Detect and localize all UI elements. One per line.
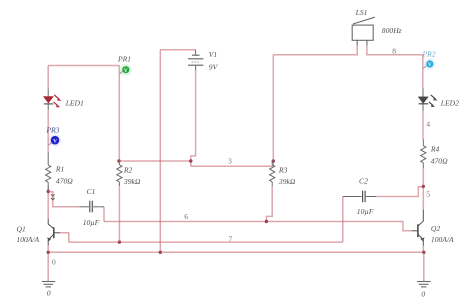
- LED1: [44, 89, 62, 111]
- svg-text:0: 0: [47, 289, 51, 298]
- resistor R2: [117, 161, 122, 186]
- svg-text:10µF: 10µF: [83, 218, 100, 227]
- wire C1 down to wire6: [103, 207, 105, 222]
- svg-text:PR3: PR3: [45, 126, 59, 135]
- svg-text:4: 4: [426, 120, 430, 129]
- svg-text:100A/A: 100A/A: [16, 235, 39, 244]
- svg-text:R2: R2: [123, 166, 133, 175]
- wire R4 to Q2 collector: [422, 168, 424, 210]
- wire net3 lower horizontal: [191, 161, 273, 166]
- svg-text:Q1: Q1: [17, 224, 26, 233]
- wire LED2 to R4: [422, 111, 424, 140]
- wire C2 left to net7: [342, 197, 344, 243]
- wire net3 horizontal left: [119, 160, 191, 162]
- wire right branch vertical top: [422, 55, 424, 89]
- svg-text:LED1: LED1: [65, 98, 84, 107]
- speaker LS1: [352, 17, 375, 45]
- LED2: [418, 89, 437, 111]
- wire left ground stem: [47, 252, 49, 281]
- wire battery bottom jog to net3: [191, 71, 196, 167]
- resistor R1: [46, 152, 51, 192]
- wire net 7 horizontal: [69, 241, 343, 243]
- junction node3 left (R2 top): [117, 159, 120, 162]
- svg-text:6: 6: [184, 212, 188, 221]
- wire ground rail net0: [48, 251, 424, 253]
- wire net 6 horizontal: [104, 221, 403, 223]
- svg-text:39kΩ: 39kΩ: [278, 177, 296, 186]
- ground left: [42, 282, 55, 287]
- wire net 6 to Q2 base: [403, 222, 412, 231]
- resistor R3: [270, 161, 275, 186]
- wire top net8 horizontal right of LS1: [367, 46, 423, 55]
- transistor Q1: [48, 219, 60, 246]
- svg-text:8: 8: [392, 46, 396, 55]
- junction R3 on net6: [265, 220, 268, 223]
- wire Q1 emitter to rail: [47, 246, 49, 253]
- Q1 emitter arrow: [47, 238, 51, 242]
- svg-text:7: 7: [229, 235, 233, 244]
- svg-text:LED2: LED2: [440, 99, 459, 108]
- transistor Q2: [412, 210, 423, 246]
- capacitor C2: [343, 191, 376, 203]
- resistor R4: [421, 139, 426, 168]
- wire battery top to ground rail vertical: [159, 50, 161, 253]
- svg-text:470Ω: 470Ω: [431, 157, 448, 166]
- svg-text:C1: C1: [87, 187, 96, 196]
- junction battery rail: [159, 251, 162, 254]
- wire C2 right jog to node5: [376, 187, 423, 197]
- svg-text:R4: R4: [430, 145, 440, 154]
- capacitor C1: [80, 201, 105, 213]
- wire Q1 base to net7: [60, 233, 69, 242]
- svg-text:PR1: PR1: [117, 54, 131, 63]
- junction node3 right (R3 top): [272, 159, 275, 162]
- wire R3 top vertical from net8 rail: [272, 55, 274, 161]
- svg-text:R1: R1: [55, 164, 64, 173]
- wire PR1 branch vertical: [118, 66, 120, 162]
- junction node5: [422, 185, 425, 188]
- junction battery minus on net3: [189, 159, 192, 162]
- probe PR2: [423, 58, 436, 70]
- svg-text:C2: C2: [359, 177, 368, 186]
- wire right ground stem: [423, 252, 425, 281]
- svg-text:5: 5: [426, 190, 430, 199]
- wire Q2 emitter to rail: [422, 246, 424, 253]
- junction R2 bottom on net7: [118, 240, 121, 243]
- svg-text:0: 0: [52, 258, 56, 267]
- probe PR1: [119, 64, 132, 76]
- svg-text:39kΩ: 39kΩ: [123, 177, 141, 186]
- svg-text:100A/A: 100A/A: [431, 235, 454, 244]
- wire jog with chevrons to C1: [48, 192, 79, 207]
- svg-text:0: 0: [421, 290, 425, 299]
- svg-text:470Ω: 470Ω: [56, 176, 73, 185]
- battery V1: [160, 50, 203, 71]
- svg-text:3: 3: [228, 157, 232, 166]
- svg-text:Q2: Q2: [431, 224, 440, 233]
- svg-text:V: V: [124, 68, 128, 74]
- svg-text:800Hz: 800Hz: [382, 26, 402, 35]
- chevron marks on C1 stub: [51, 194, 55, 200]
- wire R3 bottom jog to net6: [266, 186, 272, 222]
- junction node Q1 collector: [47, 190, 50, 193]
- wire R2 bottom to net7: [118, 186, 120, 242]
- svg-text:LS1: LS1: [355, 8, 368, 17]
- probe PR3: [48, 134, 61, 146]
- wire left branch vertical (LED1/R1 chain): [47, 66, 49, 219]
- junction Q2 emitter rail: [422, 251, 425, 254]
- junction Q1 emitter rail: [47, 251, 50, 254]
- wire top-left horizontal node3 to PR1 corner: [48, 65, 119, 67]
- svg-text:PR2: PR2: [422, 50, 436, 59]
- Q2 emitter arrow: [420, 238, 424, 242]
- svg-text:V1: V1: [209, 50, 217, 59]
- svg-text:V: V: [53, 138, 57, 144]
- svg-text:R3: R3: [278, 166, 288, 175]
- wire top net8 horizontal left of LS1: [273, 46, 357, 55]
- svg-text:10µF: 10µF: [357, 207, 374, 216]
- svg-text:9V: 9V: [209, 62, 219, 71]
- svg-text:V: V: [428, 62, 432, 68]
- ground right: [417, 282, 430, 287]
